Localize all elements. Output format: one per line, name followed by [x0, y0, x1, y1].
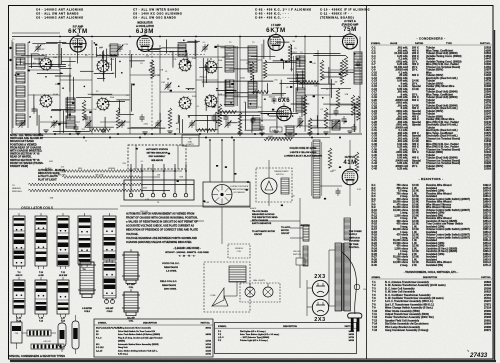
- svg-text:C9: C9: [294, 48, 296, 50]
- svg-text:16 M SW: 16 M SW: [59, 275, 67, 277]
- svg-text:RESISTANCE: RESISTANCE: [162, 284, 176, 287]
- svg-text:1871-X: 1871-X: [483, 264, 491, 267]
- svg-text:0.1: 0.1: [141, 161, 144, 163]
- svg-text:THE POWER: THE POWER: [349, 231, 362, 233]
- svg-text:1W: 1W: [335, 81, 338, 83]
- svg-text:C-62 - 436 K.C. 1º¹ I F ALIG: C-62 - 436 K.C. 1º¹ I F ALIGNING: [255, 8, 312, 12]
- svg-text:25 V.: 25 V.: [412, 165, 418, 168]
- svg-text:WITH CHASSIS: WITH CHASSIS: [252, 219, 268, 222]
- svg-text:2X3: 2X3: [314, 274, 325, 280]
- svg-text:HEATER: HEATER: [12, 187, 21, 190]
- svg-text:C6 - 1400KC ANT ALIGNING: C6 - 1400KC ANT ALIGNING: [36, 15, 84, 19]
- svg-text:S14A: S14A: [53, 93, 59, 96]
- svg-text:50M: 50M: [49, 161, 53, 163]
- svg-text:CIRCUIT: CIRCUIT: [254, 234, 263, 236]
- svg-text:.0001: .0001: [143, 123, 148, 125]
- svg-text:- CONDENSERS -: - CONDENSERS -: [416, 37, 445, 41]
- svg-text:PART NO.: PART NO.: [201, 322, 211, 325]
- svg-text:Auto. Push Button Switch (5 Bu: Auto. Push Button Switch (5 Button) (286…: [118, 333, 160, 336]
- svg-text:250: 250: [274, 79, 277, 81]
- svg-text:1/4 W.: 1/4 W.: [412, 88, 419, 91]
- svg-text:L3: L3: [249, 67, 251, 69]
- svg-text:2MΩ: 2MΩ: [199, 76, 204, 78]
- svg-text:BLACK: BLACK: [250, 207, 257, 210]
- svg-text:SPEECH: SPEECH: [235, 248, 243, 250]
- svg-text:L.D. 5: L.D. 5: [218, 337, 224, 339]
- svg-text:DESCRIPTION: DESCRIPTION: [423, 277, 438, 279]
- svg-text:2X3: 2X3: [314, 317, 325, 323]
- svg-text:P-1, 2: P-1, 2: [96, 337, 102, 339]
- svg-text:VOLTAGE READINGS ARE BETWEE: VOLTAGE READINGS ARE BETWEEN POINTS SHOW…: [126, 237, 197, 240]
- svg-text:AUTOMATIC STATION: AUTOMATIC STATION: [146, 148, 168, 151]
- svg-text:A-SW: A-SW: [38, 274, 43, 277]
- svg-text:VALUE: VALUE: [390, 42, 398, 45]
- svg-text:C-45: C-45: [372, 168, 378, 171]
- svg-text:2 meg.: 2 meg.: [400, 264, 408, 267]
- svg-text:1,2,-15: 1,2,-15: [96, 350, 103, 352]
- svg-text:LIGHTS: LIGHTS: [186, 144, 194, 146]
- svg-text:DESCRIPTION: DESCRIPTION: [283, 326, 297, 328]
- svg-text:RESISTANCE: RESISTANCE: [164, 266, 178, 269]
- svg-text:C48: C48: [15, 333, 18, 335]
- svg-text:Tubular: Tubular: [426, 168, 435, 171]
- svg-text:MEASURED ACROSS: MEASURED ACROSS: [252, 213, 275, 216]
- svg-text:C9: C9: [264, 99, 266, 101]
- svg-text:15393: 15393: [484, 168, 492, 171]
- svg-text:1W: 1W: [225, 54, 228, 56]
- svg-text:600 V.: 600 V.: [412, 74, 419, 77]
- svg-text:S-1-13,5: S-1-13,5: [96, 347, 105, 349]
- svg-text:PART NO.: PART NO.: [480, 42, 491, 45]
- svg-text:.05: .05: [176, 129, 179, 131]
- svg-text:14036: 14036: [348, 333, 354, 336]
- svg-text:0.35 amp.): 0.35 amp.): [118, 354, 128, 356]
- svg-text:Auto. Station Setting Indicato: Auto. Station Setting Indicator Unit (4.…: [118, 349, 158, 352]
- svg-text:T-16: T-16: [372, 329, 378, 332]
- svg-text:THERMOSTATIC: THERMOSTATIC: [274, 170, 289, 173]
- svg-text:Pointer Light (4.5 v. 0.3 amp.: Pointer Light (4.5 v. 0.3 amp.): [240, 339, 268, 342]
- svg-text:C4 - 1400KC ANT ALIGNING: C4 - 1400KC ANT ALIGNING: [36, 8, 84, 12]
- svg-text:C9: C9: [108, 46, 110, 48]
- svg-text:·Λ· · 40 · · 75 · ·: ·Λ· · 40 · · 75 · · 8 ·: [178, 255, 196, 258]
- svg-text:PART NO.: PART NO.: [481, 276, 491, 279]
- svg-text:S7A: S7A: [218, 93, 222, 96]
- svg-text:EARTH NEGATIVE: EARTH NEGATIVE: [252, 222, 272, 225]
- svg-text:Special: Special: [412, 124, 421, 127]
- svg-text:C5 - ALL SW ANT BANDS: C5 - ALL SW ANT BANDS: [36, 11, 79, 15]
- svg-text:PART NO.: PART NO.: [345, 325, 355, 328]
- svg-text:MOTOR: MOTOR: [281, 230, 289, 232]
- svg-text:14036: 14036: [348, 330, 354, 333]
- svg-text:TO: TO: [12, 185, 15, 187]
- svg-text:GREEN: GREEN: [108, 168, 116, 170]
- svg-text:C7 - ALL SW INTER BANDS: C7 - ALL SW INTER BANDS: [133, 8, 180, 12]
- svg-text:C-63 - 436 K.C. · · ·: C-63 - 436 K.C. · · ·: [255, 11, 289, 15]
- svg-text:PARENT VIEW): PARENT VIEW): [10, 165, 28, 168]
- svg-text:VOICE COIL D.C.: VOICE COIL D.C.: [162, 263, 180, 265]
- svg-text:.0001: .0001: [60, 172, 65, 174]
- svg-text:C8 - 1400 KC OSC ALIGNING: C8 - 1400 KC OSC ALIGNING: [133, 11, 182, 15]
- svg-text:.05: .05: [286, 87, 289, 89]
- svg-text:14141: 14141: [205, 346, 211, 349]
- svg-text:CIRCUIT: CIRCUIT: [281, 233, 290, 235]
- svg-text:SYMBOL: SYMBOL: [218, 326, 227, 328]
- svg-text:0.1: 0.1: [320, 109, 323, 111]
- svg-text:- (LEGEND LINE DRAW) -: - (LEGEND LINE DRAW) -: [173, 247, 201, 250]
- svg-text:(TERMINAL BOARD): (TERMINAL BOARD): [320, 15, 354, 19]
- svg-text:SWITCH: SWITCH: [276, 174, 284, 176]
- svg-text:SYMBOL: SYMBOL: [371, 43, 381, 45]
- svg-text:(28666): (28666): [118, 341, 125, 343]
- svg-text:■ VALUES OF RESISTANCE IN: ■ VALUES OF RESISTANCE IN CIRCUIT DO NOT…: [126, 221, 198, 224]
- svg-text:50M: 50M: [330, 171, 334, 173]
- svg-text:1W: 1W: [109, 64, 112, 66]
- svg-text:C9: C9: [244, 102, 246, 104]
- svg-text:WITHOUT - 100/600Ω - 50WATTS -: WITHOUT - 100/600Ω - 50WATTS - 0.5Ω OHMS: [165, 251, 209, 254]
- svg-text:CONTACTOR PLATE: CONTACTOR PLATE: [230, 185, 249, 188]
- svg-text:0.1: 0.1: [197, 106, 200, 108]
- svg-text:AVC: AVC: [169, 51, 173, 54]
- svg-text:- TRANSFORMERS, COILS, SWITCHE: - TRANSFORMERS, COILS, SWITCHES, ETC. -: [404, 271, 459, 274]
- svg-text:SYMBOL: SYMBOL: [372, 277, 382, 279]
- svg-text:- RESISTORS -: - RESISTORS -: [419, 177, 444, 181]
- svg-text:Automatic Station Motor Assemb: Automatic Station Motor Assembly (28205): [118, 343, 159, 346]
- svg-text:26001: 26001: [205, 328, 211, 330]
- svg-text:DIAL LIGHTS: DIAL LIGHTS: [253, 279, 265, 282]
- svg-text:C40 C42: C40 C42: [43, 341, 50, 343]
- svg-text:400 V.: 400 V.: [412, 151, 419, 154]
- svg-text:OF CHASSIS: OF CHASSIS: [233, 191, 245, 194]
- svg-text:COILS: COILS: [107, 311, 114, 313]
- svg-text:R8: R8: [58, 83, 60, 85]
- svg-text:PLAT OF LIGHT: PLAT OF LIGHT: [38, 178, 57, 181]
- svg-text:DESCRIPTION: DESCRIPTION: [143, 323, 157, 325]
- svg-text:Tuning Automatic Motor Assemb: Tuning Automatic Motor Assembly: [118, 327, 152, 330]
- svg-text:2800 OHMS.: 2800 OHMS.: [164, 289, 177, 291]
- svg-text:600 KC: 600 KC: [16, 275, 23, 277]
- svg-text:S1A: S1A: [110, 96, 114, 99]
- svg-text:600 V.: 600 V.: [412, 99, 419, 102]
- svg-text:DISC ASSEMBLY: DISC ASSEMBLY: [149, 155, 166, 158]
- svg-text:Gang Unit: Gang Unit: [118, 346, 128, 349]
- svg-text:TO: TO: [189, 139, 192, 141]
- svg-text:C9: C9: [148, 168, 150, 170]
- svg-text:14036: 14036: [205, 333, 211, 336]
- svg-text:C-11 - 436KC IF · ·: C-11 - 436KC IF · ·: [320, 11, 352, 15]
- svg-text:SETTING INDICATOR: SETTING INDICATOR: [147, 152, 168, 155]
- svg-text:250: 250: [292, 196, 295, 198]
- svg-text:C-64 - 436 K.C. · · ·: C-64 - 436 K.C. · · ·: [255, 15, 289, 19]
- svg-text:400Ω: 400Ω: [268, 136, 273, 138]
- svg-text:R-30: R-30: [372, 264, 378, 267]
- svg-text:B.C. ANT: B.C. ANT: [127, 283, 136, 286]
- svg-text:.0001: .0001: [143, 187, 148, 189]
- svg-text:0.1: 0.1: [203, 42, 206, 44]
- svg-text:14762: 14762: [205, 343, 211, 346]
- svg-text:MOUNTED: MOUNTED: [349, 241, 360, 243]
- svg-text:COIL: COIL: [237, 251, 241, 253]
- svg-text:T⅗-VOLTAGES: T⅗-VOLTAGES: [252, 210, 268, 213]
- svg-text:SPECIAL CONDENSERS & RESISTOR: SPECIAL CONDENSERS & RESISTOR TYPES: [9, 354, 65, 358]
- svg-text:R8: R8: [292, 41, 294, 43]
- svg-text:26971: 26971: [484, 329, 492, 332]
- svg-text:FIELD COIL D.C.: FIELD COIL D.C.: [160, 281, 177, 283]
- svg-text:T1: T1: [85, 140, 87, 142]
- svg-text:Drive Shaft Switch On Tone: Drive Shaft Switch On Tone Control Kit: [118, 330, 155, 333]
- svg-text:C-10 - 436KC IF IF ALIGNING: C-10 - 436KC IF IF ALIGNING: [320, 8, 370, 12]
- svg-text:S4A: S4A: [53, 56, 57, 59]
- svg-text:RED: RED: [78, 168, 83, 170]
- svg-text:VOLTAGE.: VOLTAGE.: [126, 233, 139, 236]
- svg-text:14733: 14733: [348, 336, 354, 339]
- svg-text:Dial Lights (4.5 v. 0.3 amp.): Dial Lights (4.5 v. 0.3 amp.): [240, 330, 266, 333]
- svg-text:2-W ANT: 2-W ANT: [106, 307, 115, 310]
- svg-text:THE RESPECTIVE WIND-: THE RESPECTIVE WIND-: [252, 217, 278, 219]
- svg-text:AVC: AVC: [283, 97, 287, 100]
- svg-text:C9 - ALL SW OSC BANDS: C9 - ALL SW OSC BANDS: [133, 15, 176, 19]
- svg-text:14733: 14733: [205, 340, 211, 343]
- svg-text:14036: 14036: [348, 339, 354, 342]
- svg-text:CONE: CONE: [210, 295, 216, 297]
- svg-text:.05: .05: [153, 75, 156, 77]
- svg-text:YELLOW: YELLOW: [140, 211, 148, 213]
- svg-text:14741: 14741: [205, 353, 211, 356]
- svg-text:AVC: AVC: [176, 122, 180, 125]
- svg-text:0.25 mfd.: 0.25 mfd.: [397, 168, 408, 171]
- svg-text:2 W.: 2 W.: [412, 264, 417, 267]
- svg-text:2ⁿᵈ DET. &: 2ⁿᵈ DET. &: [344, 19, 356, 23]
- svg-text:TO AUTO: TO AUTO: [281, 226, 291, 229]
- svg-text:COLOR CODE OF GANG: COLOR CODE OF GANG: [290, 147, 317, 150]
- svg-text:Gang Condenser Assembly (3 Gan: Gang Condenser Assembly (3 Gang): [385, 329, 429, 332]
- svg-text:OSCILLATOR COILS: OSCILLATOR COILS: [21, 206, 54, 210]
- svg-text:.0001: .0001: [292, 52, 297, 54]
- svg-text:S7A: S7A: [110, 58, 114, 61]
- svg-text:25 V.: 25 V.: [412, 69, 418, 72]
- svg-text:C9: C9: [251, 122, 253, 124]
- svg-text:INDICATION OF PRESENCE OF: INDICATION OF PRESENCE OF CORRECT GRID A…: [126, 229, 198, 232]
- svg-text:14134: 14134: [205, 349, 211, 352]
- svg-text:1W: 1W: [41, 54, 44, 56]
- svg-text:S1A: S1A: [218, 59, 222, 62]
- svg-text:400Ω: 400Ω: [240, 77, 245, 79]
- svg-text:COILS: COILS: [84, 311, 91, 313]
- svg-text:RATING: RATING: [415, 42, 424, 45]
- svg-text:3-W INTER: 3-W INTER: [82, 308, 92, 310]
- svg-text:CHASSIS (GROUND) UNLESS OTH: CHASSIS (GROUND) UNLESS OTHERWISE INDICA…: [126, 241, 192, 244]
- svg-text:Plug & LT Amp. Socket and Dial: Plug & LT Amp. Socket and Dial Light Ter…: [118, 336, 163, 339]
- svg-text:SYMBOL: SYMBOL: [98, 323, 107, 325]
- svg-text:YELLOW: YELLOW: [95, 174, 103, 176]
- svg-text:L3: L3: [165, 71, 167, 73]
- svg-text:AUTOMATIC SWITCH ARRANGEMENT: AUTOMATIC SWITCH ARRANGEMENT AS VIEWED F…: [126, 213, 194, 216]
- svg-text:TYPE: TYPE: [446, 43, 452, 45]
- svg-text:SEE ABOVE: SEE ABOVE: [151, 159, 163, 162]
- svg-text:Auto. Tune Button Lights (4.5: Auto. Tune Button Lights (4.5 v. 0.3 amp…: [240, 333, 279, 336]
- svg-text:ACCURATE VOLTAGE CHECK. U: ACCURATE VOLTAGE CHECK. USE PLATE CURREN…: [126, 225, 194, 228]
- svg-text:Insulated (5%): Insulated (5%): [426, 264, 443, 267]
- svg-text:FRONT OF CHASSIS WITH CHAS: FRONT OF CHASSIS WITH CHASSIS IN NORMAL …: [126, 217, 198, 220]
- svg-text:1.4 OHMS.: 1.4 OHMS.: [166, 270, 177, 273]
- svg-text:· · 1937 (Selector Type) (28: · · 1937 (Selector Type) (28666): [240, 336, 270, 339]
- svg-text:TO AUTOMATIC MOTOR: TO AUTOMATIC MOTOR: [252, 230, 276, 233]
- svg-text:.0001: .0001: [268, 97, 273, 99]
- svg-text:27433: 27433: [469, 352, 488, 359]
- svg-text:WINDING: WINDING: [12, 191, 22, 193]
- svg-text:OSC: OSC: [122, 163, 127, 165]
